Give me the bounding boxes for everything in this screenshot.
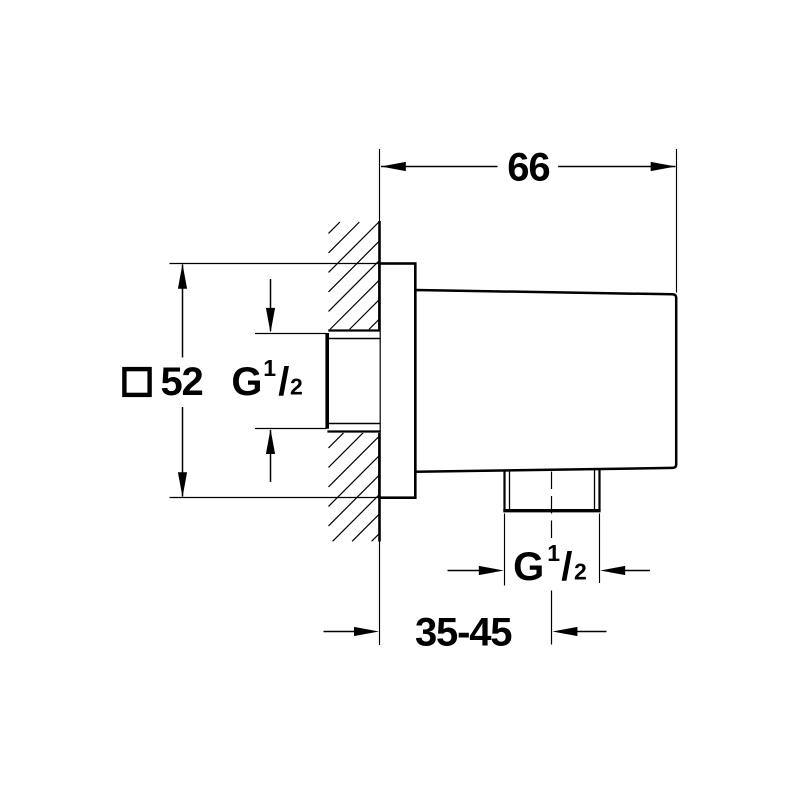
bottom outlet thread (503, 470, 505, 511)
wall line (379, 149, 381, 222)
svg-text:G: G (231, 360, 262, 404)
svg-text:/: / (561, 545, 572, 589)
svg-text:52: 52 (161, 360, 203, 404)
dimension 52 (170, 263, 380, 265)
top connector thread (325, 329, 379, 433)
body (415, 290, 676, 472)
svg-text:G: G (513, 545, 544, 589)
dimension G1/2 bottom (504, 514, 506, 586)
dimension 35-45 (324, 631, 358, 633)
dimension G1/2 upper (255, 333, 327, 335)
svg-text:1: 1 (263, 355, 276, 381)
svg-text:1: 1 (547, 540, 560, 566)
wall hatching (329, 222, 380, 541)
svg-text:35-45: 35-45 (415, 611, 512, 655)
svg-text:2: 2 (574, 559, 587, 585)
svg-text:/: / (278, 360, 289, 404)
flange plate (380, 264, 416, 498)
svg-text:2: 2 (290, 374, 303, 400)
centerline (551, 472, 553, 490)
dimension 66 (676, 149, 678, 293)
square symbol (124, 369, 149, 395)
svg-text:66: 66 (507, 146, 549, 190)
